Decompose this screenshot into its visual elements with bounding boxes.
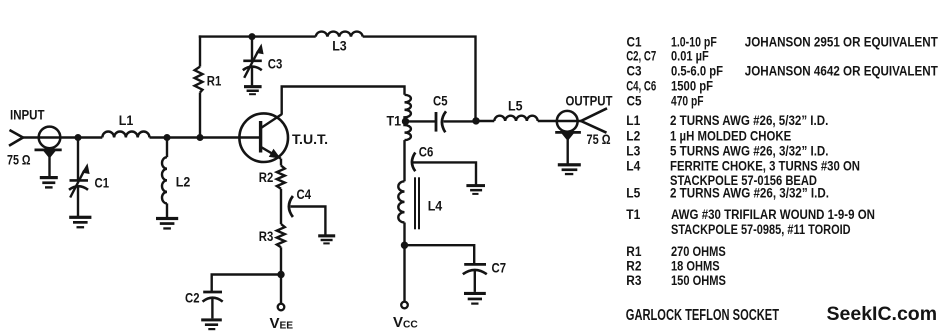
wire emitter to R2 bbox=[280, 159, 282, 166]
inductor L3 bbox=[316, 32, 363, 37]
capacitor C7 bbox=[463, 264, 487, 292]
node: VCC junction bbox=[401, 242, 408, 249]
svg-text:R3: R3 bbox=[259, 229, 274, 244]
output connector arrow bbox=[581, 108, 607, 132]
svg-text:150 OHMS: 150 OHMS bbox=[671, 273, 726, 288]
svg-text:L5: L5 bbox=[508, 99, 523, 114]
svg-text:T1: T1 bbox=[626, 207, 640, 222]
svg-text:SeekIC.com: SeekIC.com bbox=[827, 303, 938, 325]
wire R1 upper bbox=[199, 35, 201, 66]
wire R2 to R3 bbox=[280, 189, 282, 224]
svg-text:L4: L4 bbox=[428, 199, 443, 214]
wire T1 lower to L4 bbox=[403, 140, 405, 181]
capacitor C4 (plate arc) bbox=[289, 196, 293, 217]
ground below C3 bbox=[244, 85, 262, 95]
svg-text:L4: L4 bbox=[626, 159, 640, 174]
ground below output connector bbox=[558, 163, 581, 175]
svg-text:R1: R1 bbox=[207, 74, 222, 89]
resistor R2 bbox=[277, 166, 285, 189]
wire junction to L5 bbox=[476, 120, 494, 122]
svg-text:C5: C5 bbox=[433, 93, 448, 108]
svg-text:FERRITE CHOKE, 3 TURNS #30 ON: FERRITE CHOKE, 3 TURNS #30 ON bbox=[670, 159, 860, 174]
node: output rail junction bbox=[472, 117, 479, 124]
node: VEE junction bbox=[277, 271, 284, 278]
wire VCC node to C7 bbox=[405, 245, 475, 263]
svg-text:T1: T1 bbox=[387, 113, 402, 128]
capacitor C3 (variable) bbox=[243, 44, 264, 86]
wire C3 branch bbox=[251, 37, 253, 60]
svg-text:L1: L1 bbox=[119, 113, 134, 128]
wire L4 to VCC node bbox=[403, 223, 405, 246]
wire top rail right bbox=[363, 37, 476, 121]
resistor R3 bbox=[277, 224, 285, 247]
wire C4 to ground bbox=[291, 207, 326, 235]
svg-text:2 TURNS AWG #26, 5/32” I.D.: 2 TURNS AWG #26, 5/32” I.D. bbox=[670, 113, 828, 128]
ground below C1 bbox=[69, 216, 91, 229]
wire R3 to VEE node bbox=[280, 247, 282, 274]
svg-text:C7: C7 bbox=[492, 261, 507, 276]
output coax connector J2 bbox=[555, 111, 581, 164]
svg-text:1500 pF: 1500 pF bbox=[671, 79, 713, 94]
svg-text:T.U.T.: T.U.T. bbox=[292, 132, 328, 147]
capacitor C1 (variable) bbox=[69, 163, 90, 216]
wire L1 to base bbox=[150, 136, 261, 138]
svg-text:C5: C5 bbox=[627, 94, 642, 109]
node: junction to R1 bbox=[197, 134, 204, 141]
svg-text:C1: C1 bbox=[95, 176, 110, 191]
svg-text:C4, C6: C4, C6 bbox=[626, 79, 656, 94]
svg-text:L3: L3 bbox=[332, 38, 347, 53]
inductor L5 bbox=[494, 116, 537, 121]
svg-text:0.01 µF: 0.01 µF bbox=[671, 49, 709, 64]
wire top rail left bbox=[199, 35, 316, 37]
svg-text:18 OHMS: 18 OHMS bbox=[671, 258, 720, 273]
wire C6 to ground bbox=[413, 162, 476, 184]
node: input junction to C1 bbox=[75, 134, 82, 141]
node: T1 tap bbox=[402, 118, 409, 125]
transistor T.U.T. bbox=[239, 113, 288, 162]
wire C5 to output rail bbox=[444, 120, 477, 122]
ground below C4 bbox=[318, 234, 335, 244]
svg-text:L5: L5 bbox=[626, 186, 640, 201]
wire L2 to ground bbox=[166, 203, 168, 217]
svg-text:C6: C6 bbox=[419, 144, 434, 159]
svg-text:R1: R1 bbox=[626, 244, 642, 259]
svg-text:R2: R2 bbox=[259, 170, 274, 185]
input coax connector J1 bbox=[35, 127, 62, 177]
svg-text:GARLOCK TEFLON SOCKET: GARLOCK TEFLON SOCKET bbox=[626, 307, 779, 324]
svg-text:5 TURNS AWG #26, 3/32” I.D.: 5 TURNS AWG #26, 3/32” I.D. bbox=[670, 144, 829, 159]
svg-text:1 µH MOLDED CHOKE: 1 µH MOLDED CHOKE bbox=[670, 129, 791, 144]
wire VEE node to C2 bbox=[212, 275, 281, 292]
wire VCC terminal bbox=[403, 245, 405, 302]
capacitor C5 bbox=[436, 111, 446, 132]
capacitor C2 bbox=[203, 292, 223, 318]
svg-text:R3: R3 bbox=[626, 273, 641, 288]
svg-text:0.5-6.0 pF: 0.5-6.0 pF bbox=[671, 63, 723, 78]
wire collector up and over to T1 bbox=[282, 87, 405, 115]
svg-text:JOHANSON 4642 OR EQUIVALENT: JOHANSON 4642 OR EQUIVALENT bbox=[745, 63, 939, 78]
svg-text:L1: L1 bbox=[626, 113, 640, 128]
wire L2 branch bbox=[166, 138, 168, 158]
svg-text:VCC: VCC bbox=[393, 314, 418, 331]
svg-text:C2: C2 bbox=[185, 290, 200, 305]
ground below C7 bbox=[464, 292, 486, 305]
wire input rail left bbox=[22, 136, 102, 138]
node: junction to C3 bbox=[249, 33, 256, 40]
svg-text:R2: R2 bbox=[626, 258, 641, 273]
svg-text:AWG #30 TRIFILAR WOUND 1-9-9 O: AWG #30 TRIFILAR WOUND 1-9-9 ON bbox=[671, 207, 875, 222]
svg-text:C1: C1 bbox=[627, 34, 642, 49]
wire L5 to output connector bbox=[538, 120, 581, 122]
wire T1 tap to C5 bbox=[406, 120, 436, 122]
svg-text:OUTPUT: OUTPUT bbox=[566, 94, 614, 109]
svg-text:C3: C3 bbox=[627, 63, 642, 78]
VEE terminal circle bbox=[278, 304, 285, 311]
input connector ground bbox=[40, 176, 58, 189]
inductor L2 bbox=[162, 157, 167, 203]
svg-text:INPUT: INPUT bbox=[10, 108, 45, 123]
svg-text:L2: L2 bbox=[626, 129, 640, 144]
svg-text:L3: L3 bbox=[626, 144, 640, 159]
inductor L4 winding bbox=[398, 181, 404, 222]
L4 core lines bbox=[415, 177, 419, 229]
svg-text:VEE: VEE bbox=[270, 315, 294, 332]
svg-text:2 TURNS AWG #26, 3/32” I.D.: 2 TURNS AWG #26, 3/32” I.D. bbox=[670, 186, 829, 201]
svg-text:270 OHMS: 270 OHMS bbox=[671, 244, 726, 259]
wire C1 branch bbox=[77, 138, 79, 181]
VCC terminal circle bbox=[401, 302, 408, 309]
svg-text:STACKPOLE 57-0985, #11 TOROID: STACKPOLE 57-0985, #11 TOROID bbox=[671, 222, 851, 237]
svg-text:75 Ω: 75 Ω bbox=[587, 132, 611, 147]
node: junction to L2 bbox=[164, 134, 171, 141]
wire R1 lower bbox=[199, 93, 201, 138]
ground below L2 bbox=[156, 217, 178, 230]
input connector arrow bbox=[9, 130, 23, 146]
svg-text:C4: C4 bbox=[297, 187, 312, 202]
inductor L1 bbox=[102, 132, 149, 138]
capacitor C6 (plate arc) bbox=[412, 153, 415, 172]
transformer T1 winding bbox=[405, 95, 411, 140]
svg-text:L2: L2 bbox=[176, 174, 191, 189]
svg-text:C3: C3 bbox=[268, 56, 283, 71]
ground below C6 bbox=[466, 184, 485, 195]
wire VEE terminal bbox=[280, 275, 282, 304]
svg-text:JOHANSON 2951 OR EQUIVALENT: JOHANSON 2951 OR EQUIVALENT bbox=[745, 34, 939, 49]
resistor R1 bbox=[195, 67, 203, 93]
svg-text:1.0-10 pF: 1.0-10 pF bbox=[671, 34, 717, 49]
svg-text:470 pF: 470 pF bbox=[671, 94, 704, 109]
svg-text:75 Ω: 75 Ω bbox=[7, 152, 31, 167]
svg-text:C2, C7: C2, C7 bbox=[626, 49, 656, 64]
ground below C2 bbox=[201, 318, 222, 330]
